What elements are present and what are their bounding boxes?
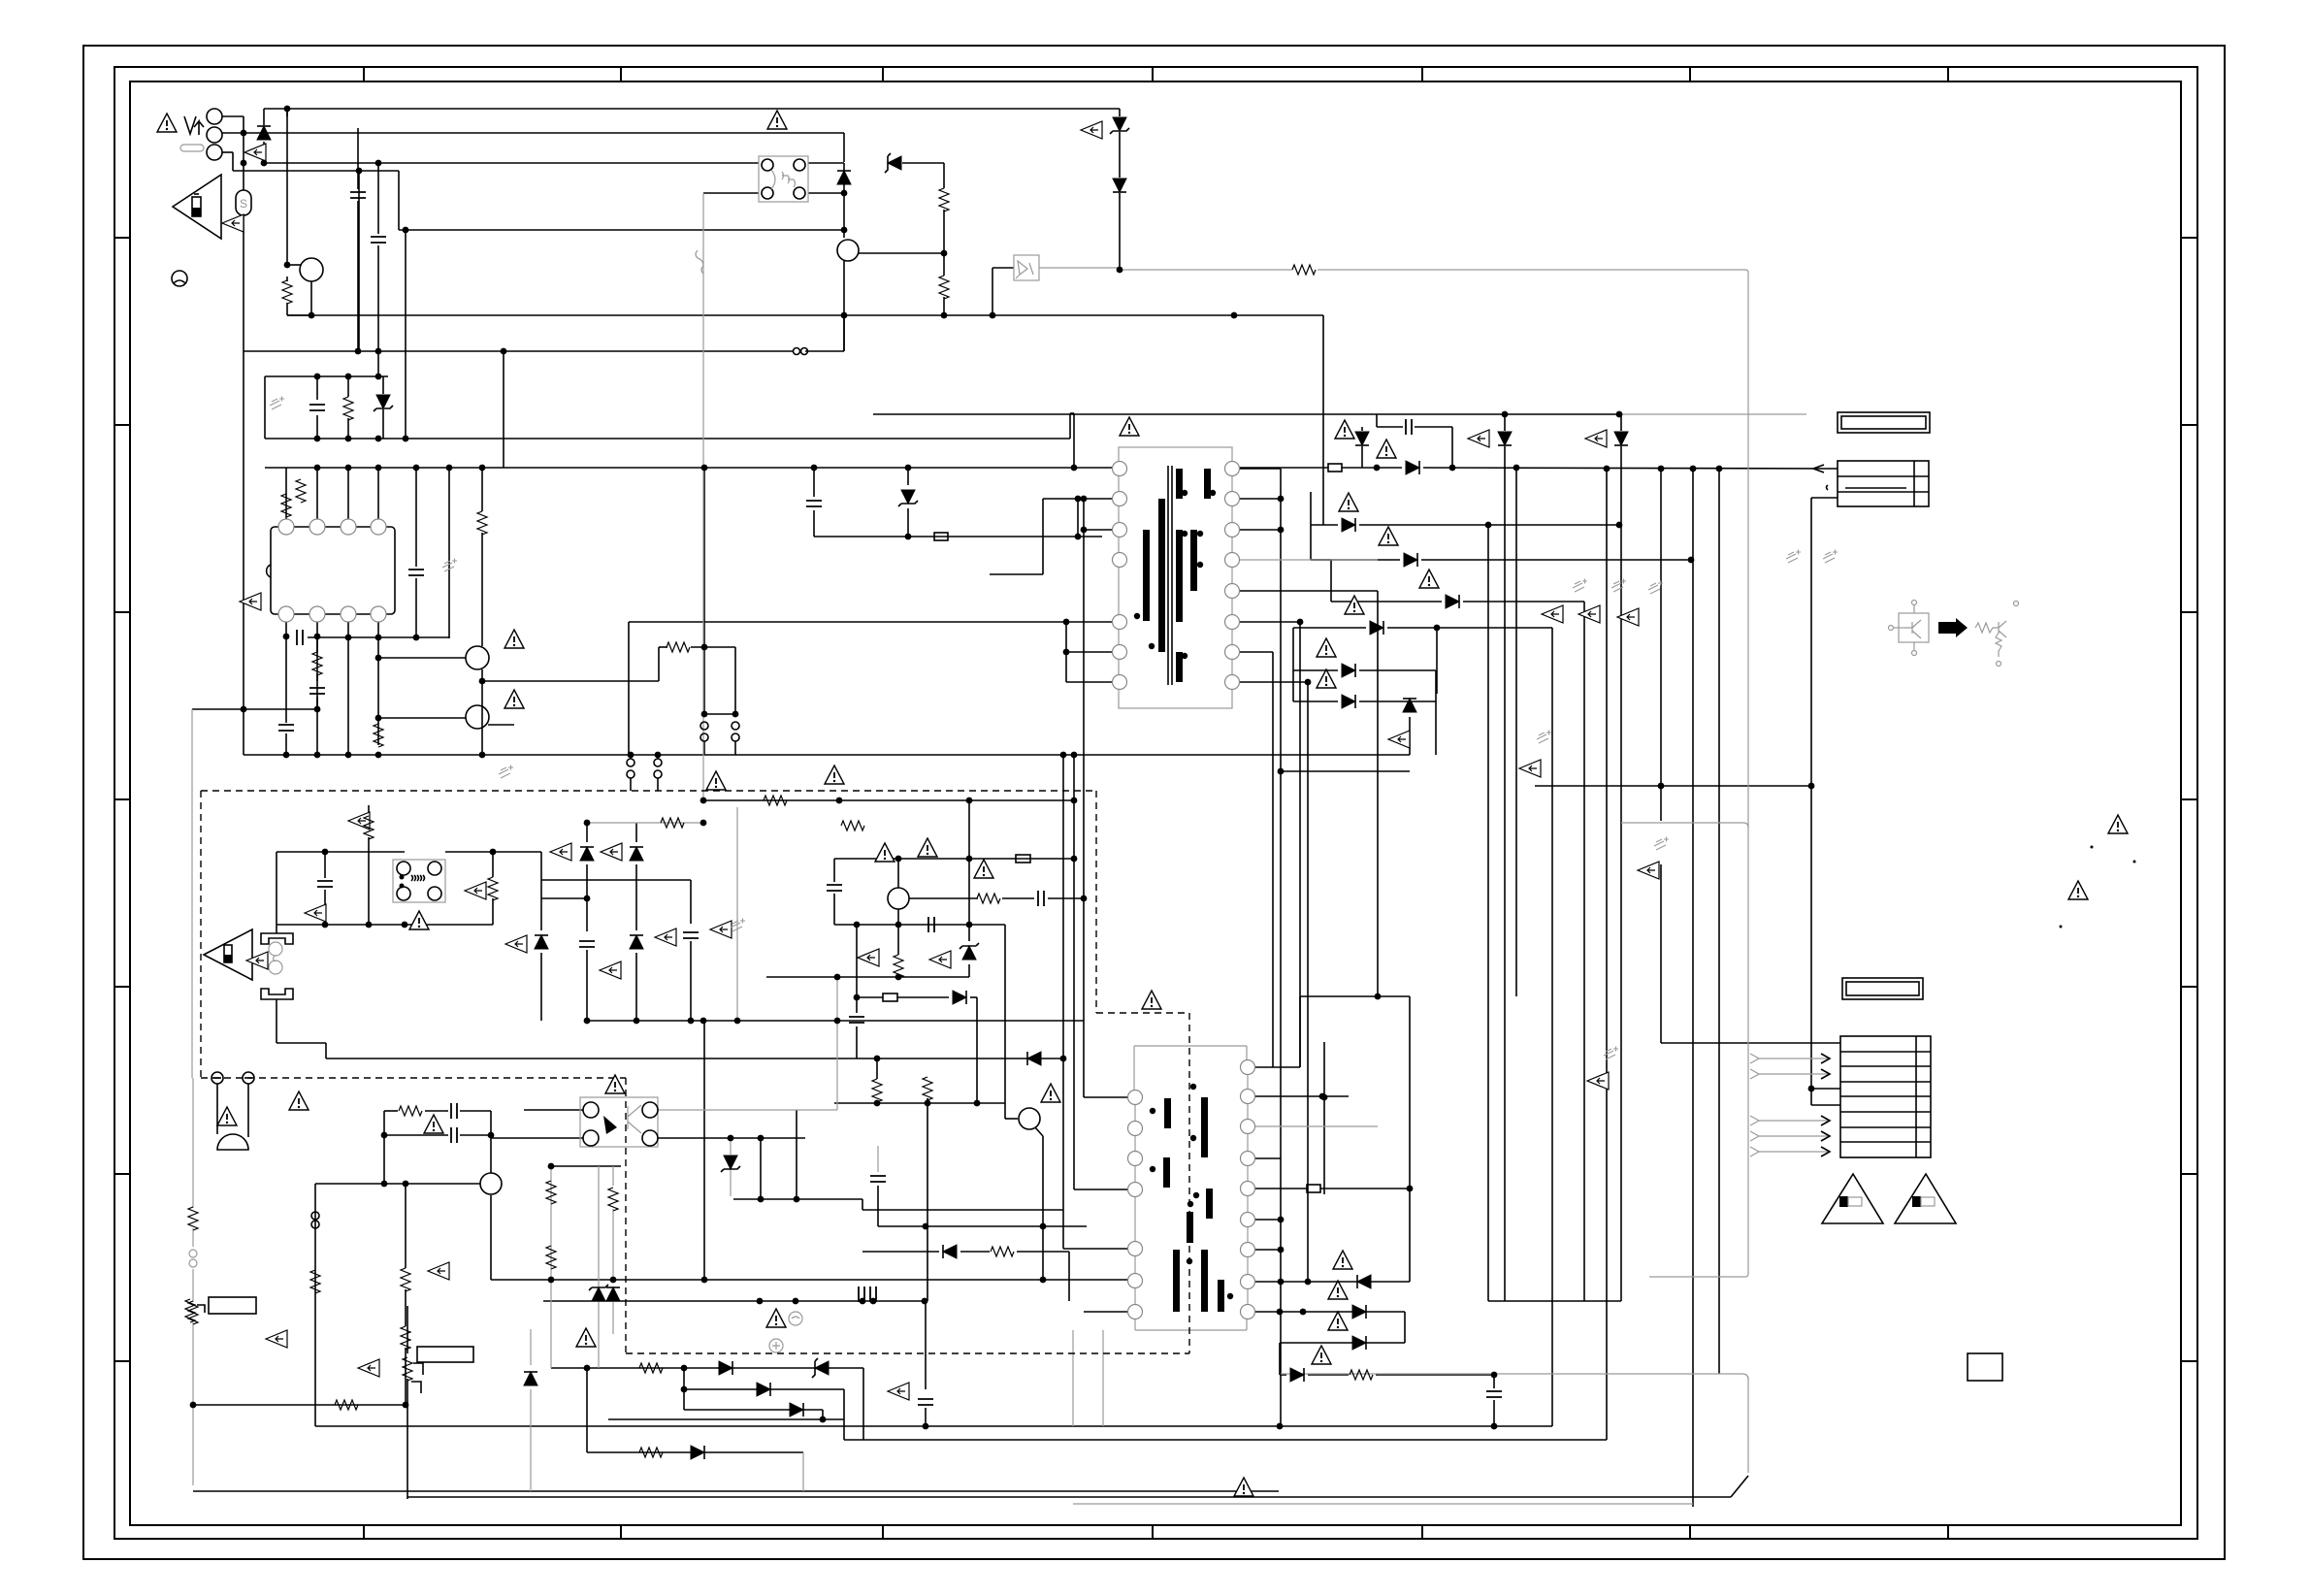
svg-text:S: S	[240, 197, 247, 211]
